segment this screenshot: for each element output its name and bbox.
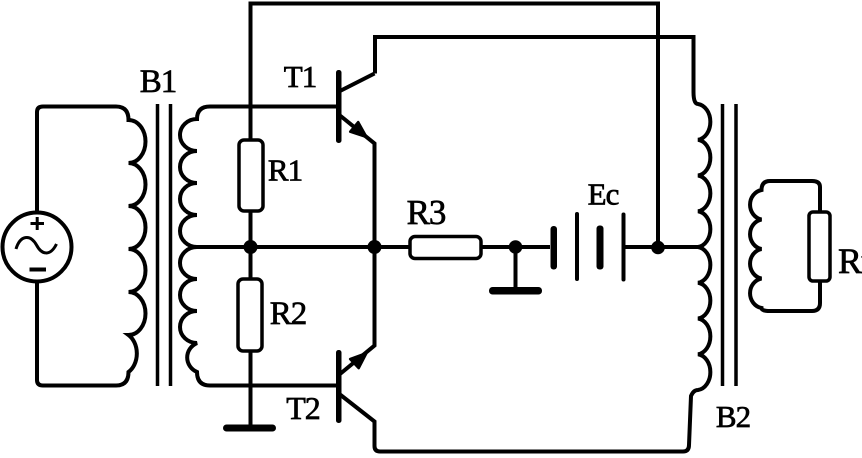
wire: node A to R2 top bbox=[249, 247, 253, 279]
wire: source top to B1 primary bbox=[37, 107, 116, 213]
svg-text:R2: R2 bbox=[270, 296, 307, 332]
svg-text:Ec: Ec bbox=[588, 177, 619, 212]
svg-text:B1: B1 bbox=[140, 64, 177, 100]
load resistor Rn bbox=[809, 212, 830, 281]
transformer B1 primary winding bbox=[116, 107, 146, 386]
transformer B2 secondary winding bbox=[750, 181, 820, 311]
resistor R3 bbox=[410, 237, 481, 259]
transformer B2 core bbox=[723, 104, 737, 386]
wire: R3 to node C bbox=[481, 245, 516, 249]
ground symbol below R2 bbox=[223, 425, 276, 432]
wire: R1 bottom to node A bbox=[249, 211, 253, 243]
battery Ec plate 4 (long) bbox=[622, 213, 626, 282]
wire: node D to B2 center tap bbox=[658, 245, 698, 249]
G1 plus mark bbox=[31, 217, 45, 230]
ground symbol at node C bbox=[489, 287, 542, 295]
AC source G1 bbox=[3, 213, 72, 282]
T1 emitter lead bbox=[340, 116, 375, 244]
wire: battery to node D bbox=[626, 245, 659, 249]
svg-text:T1: T1 bbox=[284, 59, 316, 94]
transformer B1 secondary lower winding + T2 base wire bbox=[180, 247, 336, 386]
G1 sine wave bbox=[16, 237, 57, 252]
battery Ec plate 2 (long) bbox=[575, 212, 579, 281]
transformer B2 primary upper winding bbox=[694, 92, 711, 247]
wire: node B to R3 bbox=[375, 245, 411, 249]
node B (emitters) junction dot bbox=[368, 240, 382, 254]
wire: B1 center tap to node A bbox=[197, 245, 250, 249]
transformer B1 secondary upper winding + T1 base wire bbox=[180, 107, 336, 248]
wire: node C to battery bbox=[516, 245, 551, 249]
wire: node C down to ground bbox=[514, 247, 518, 288]
transformer B1 core bbox=[158, 104, 171, 386]
wire: source bottom to B1 primary bbox=[37, 282, 116, 386]
transistor T2 base bar bbox=[336, 350, 342, 423]
wire: middle bus node A to node B bbox=[251, 245, 375, 249]
G1 minus mark bbox=[30, 268, 47, 272]
T2 emitter lead bbox=[340, 251, 375, 374]
T2 emitter arrow bbox=[350, 353, 366, 368]
transformer B2 primary lower winding bbox=[683, 247, 710, 452]
wire: top bus from +Ec vertical (net +Ec) bbox=[251, 4, 659, 242]
svg-text:R3: R3 bbox=[407, 193, 446, 232]
transistor T1 base bar bbox=[336, 70, 342, 143]
T1 emitter arrow bbox=[350, 122, 366, 137]
T1 collector lead bbox=[340, 74, 375, 92]
battery Ec plate 1 (short) bbox=[551, 226, 558, 270]
battery Ec plate 3 (short) bbox=[597, 226, 604, 270]
node C junction dot bbox=[509, 240, 523, 254]
wire: R2 bottom to ground bbox=[249, 351, 253, 425]
resistor R1 bbox=[239, 140, 263, 211]
T2 collector lead to bottom bus bbox=[340, 395, 683, 452]
node D junction dot bbox=[651, 241, 665, 255]
svg-text:T2: T2 bbox=[286, 390, 320, 426]
svg-text:R1: R1 bbox=[268, 153, 302, 188]
wire: T1 collector to B2 primary top bbox=[375, 37, 694, 92]
svg-text:Rн: Rн bbox=[838, 241, 862, 281]
svg-text:B2: B2 bbox=[716, 399, 750, 434]
resistor R2 bbox=[238, 279, 262, 351]
node A junction dot bbox=[244, 240, 258, 254]
